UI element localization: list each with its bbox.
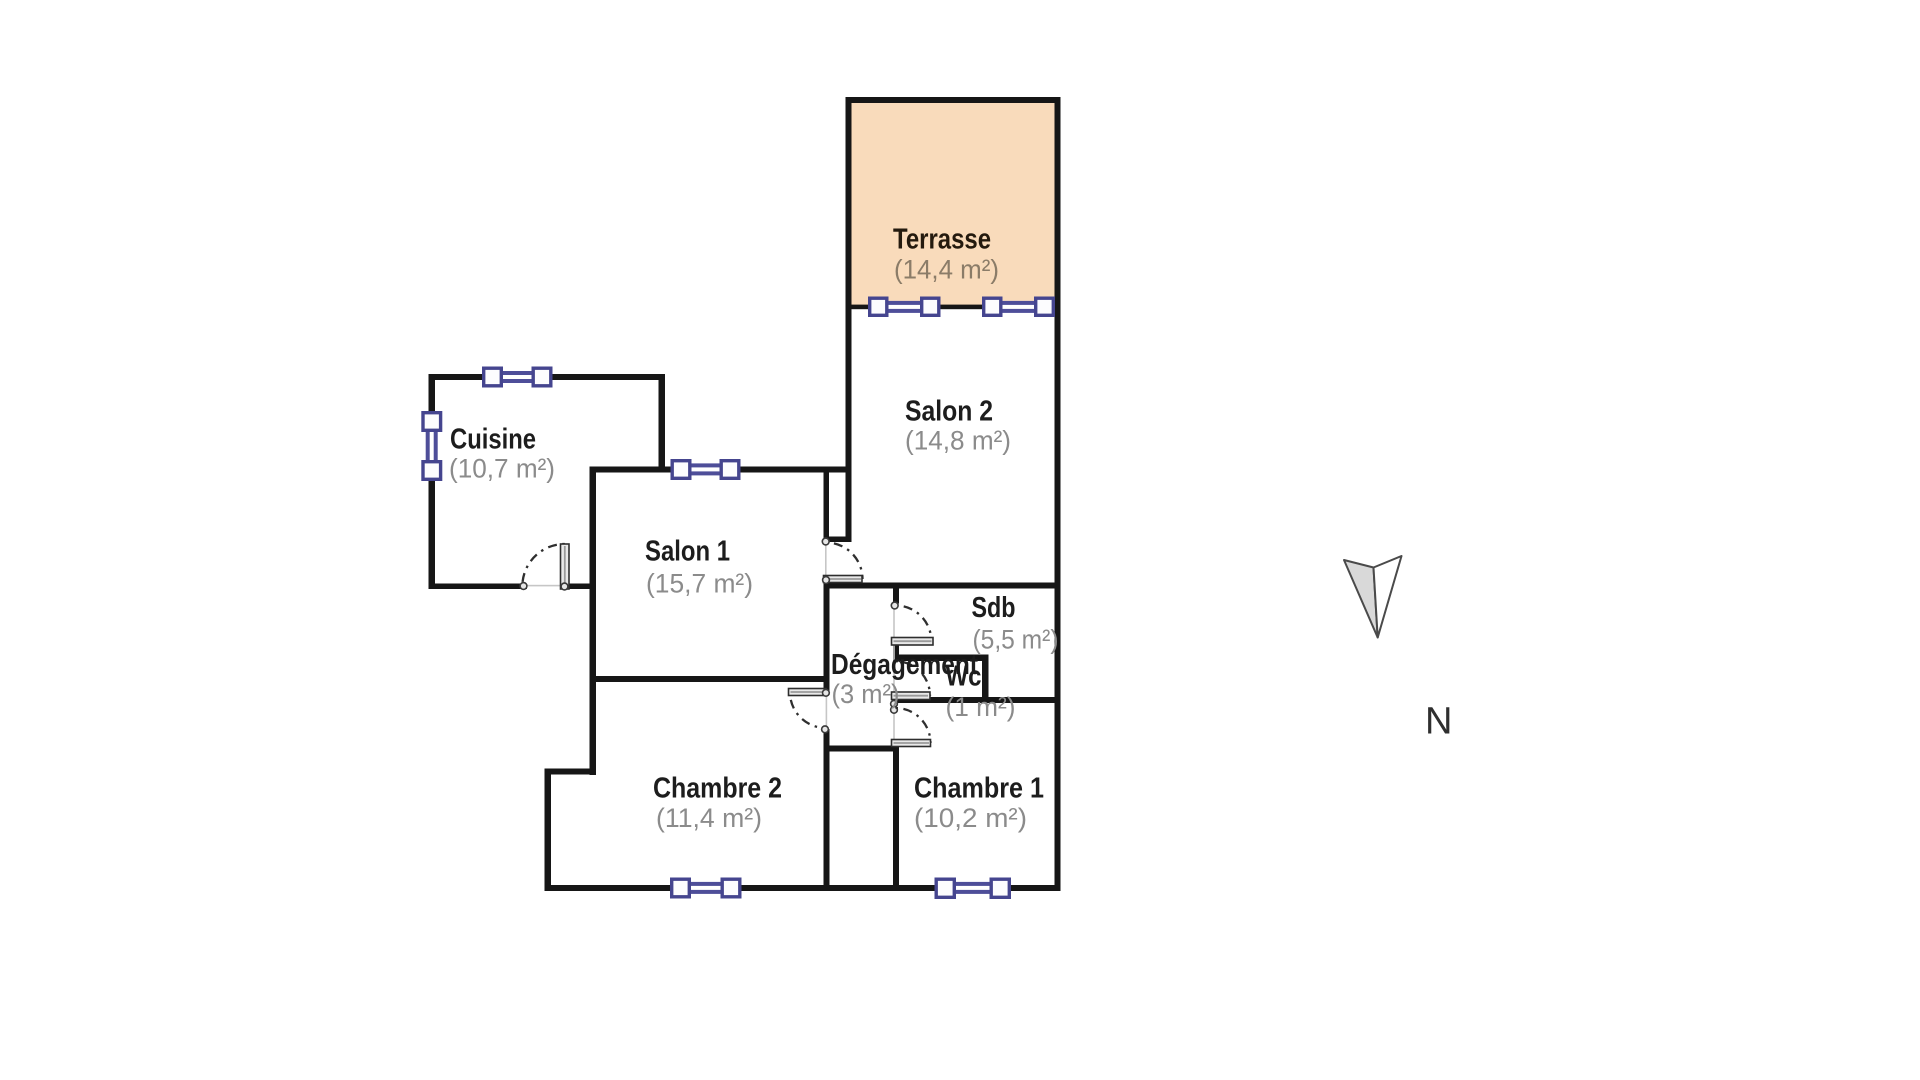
thin closed-door reference lines [524,542,895,744]
hollow wall stub left line [824,472,830,542]
door E hinge circle [822,538,829,545]
hollow wall stub bottom cap [824,537,852,543]
svg-text:Chambre 1: Chambre 1 [914,773,1044,805]
svg-text:(11,4 m²): (11,4 m²) [656,803,762,833]
svg-text:(14,4 m²): (14,4 m²) [894,255,999,285]
svg-text:(3 m²): (3 m²) [832,679,900,709]
wall H10 closet top [824,746,900,752]
svg-text:(5,5 m²): (5,5 m²) [973,625,1059,655]
door C closed line [826,695,828,729]
door F closed line [524,585,561,587]
svg-text:Wc: Wc [946,661,982,693]
wall V6 between sdb door and wc [893,644,899,662]
doors A B D closed line [893,603,895,744]
door B leaf [892,740,931,747]
svg-text:Cuisine: Cuisine [450,424,536,456]
wall V6 degagement/sdb divider upper [893,588,899,604]
wall Wc top [893,655,989,662]
svg-text:(10,2 m²): (10,2 m²) [914,803,1027,833]
door C leaf [789,689,827,696]
door A hinge circles [891,700,898,707]
window terrasse pair 1 [889,301,921,313]
wall H6 salon1/chambre2 divider [596,676,830,682]
wall V3 salon1/chambre2 left upper [590,467,597,776]
svg-text:Chambre 2: Chambre 2 [653,773,782,805]
door D hinge circle [891,602,898,609]
wall H2 terrasse window wall [852,305,1055,310]
door A leaf [892,692,931,700]
window salon1 top [692,463,720,475]
wall V8 degagement left lower [824,729,830,889]
windows [423,298,1053,897]
svg-text:Terrasse: Terrasse [893,223,991,255]
window cuisine top [503,371,532,383]
window chambre1 bottom [956,882,990,894]
wall H4 salon1 top [590,467,852,473]
wall V5a salon2/terrasse left [846,97,852,542]
svg-text:(1 m²): (1 m²) [946,692,1016,722]
wall V7 right outer [1055,97,1061,891]
door E closed line [825,542,827,578]
window cuisine left [426,432,438,461]
door E salon1-salon2 arc [826,543,863,580]
wall V2 cuisine right [659,374,666,472]
door C chambre2 arc [790,692,826,728]
door F hinge circles [520,583,527,590]
svg-text:(14,8 m²): (14,8 m²) [905,426,1011,456]
door A wc arc [896,661,931,696]
wall H1 terrasse top [846,97,1061,103]
door C hinge circles [823,689,830,696]
wall H5 cuisine bottom [429,584,528,590]
wall V4 chambre2 left lower [545,769,552,892]
wall H9 sdb/wc bottom [893,697,1061,703]
wall V9 closet right [893,746,899,888]
wall V1 cuisine left [429,374,436,589]
door F cuisine arc [522,544,565,587]
doors [520,538,933,746]
door D leaf [892,638,934,646]
svg-text:N: N [1425,701,1452,743]
wall H11 bottom outer [545,885,1061,891]
door F leaf [561,544,570,589]
window chambre2 bottom [691,882,721,894]
svg-text:Salon 1: Salon 1 [645,536,730,568]
svg-text:(15,7 m²): (15,7 m²) [646,569,753,599]
svg-text:Salon 2: Salon 2 [905,395,993,427]
door E leaf [824,576,863,583]
terrasse floor fill [851,101,1055,307]
door D sdb arc [896,606,932,642]
wall V8 degagement left upper [824,588,830,695]
room labels [449,223,1059,833]
svg-text:(10,7 m²): (10,7 m²) [449,454,555,484]
walls [429,97,1061,891]
wall H7 salon2 bottom [824,583,1061,589]
window terrasse pair 2 [1003,301,1035,313]
svg-text:Sdb: Sdb [972,592,1016,624]
wall step chambre2 left [545,769,597,775]
north arrow [1344,556,1402,638]
door B chambre1 arc [896,708,931,743]
wall H3 cuisine top [429,374,666,380]
wall Wc right [982,655,989,704]
